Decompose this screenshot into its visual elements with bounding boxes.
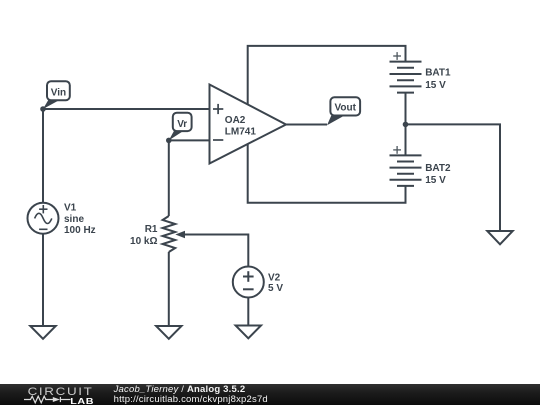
svg-text:V1: V1 (64, 203, 77, 214)
svg-text:5 V: 5 V (268, 283, 283, 294)
net flag Vout (327, 97, 360, 125)
wire Vin node down to V1 + terminal (42, 109, 44, 203)
op-amp - input marker (213, 139, 223, 141)
source V1 (sine) (28, 203, 59, 234)
wire battery junction right and down to ground (406, 124, 501, 231)
ground below V1 (30, 326, 55, 339)
ground below R1 (156, 326, 181, 339)
wire Vr node down to R1 top (168, 140, 170, 216)
label OA2 LM741 (225, 115, 257, 137)
wire op-amp output to Vout flag (286, 124, 327, 126)
wire V2 - terminal to ground (247, 297, 249, 325)
net flag Vr (169, 113, 192, 141)
svg-text:100 Hz: 100 Hz (64, 225, 96, 236)
potentiometer R1 wiper arrow (175, 231, 185, 238)
label BAT2 15 V (425, 163, 451, 186)
wire R1 bottom to ground (168, 252, 170, 326)
BAT2 + terminal marker (393, 146, 401, 154)
svg-text:OA2: OA2 (225, 115, 246, 126)
label BAT1 15 V (425, 68, 451, 91)
svg-text:10 kΩ: 10 kΩ (130, 236, 157, 247)
wire battery junction down to BAT2 + terminal (405, 124, 407, 155)
footer bar (0, 384, 540, 405)
svg-text:BAT1: BAT1 (425, 68, 451, 79)
svg-text:15 V: 15 V (425, 175, 446, 186)
node battery junction (403, 122, 409, 128)
node at Vr junction (166, 138, 172, 144)
svg-text:sine: sine (64, 214, 84, 225)
svg-text:CIRCUIT: CIRCUIT (28, 385, 94, 398)
net flag Vin (43, 81, 70, 109)
label V1 sine 100 Hz (64, 203, 96, 237)
svg-text:Vr: Vr (177, 119, 187, 130)
wire BAT1 - terminal down to battery junction (405, 93, 407, 125)
CircuitLab logo (24, 384, 124, 405)
svg-text:LAB: LAB (70, 397, 94, 405)
op-amp + input marker (213, 104, 223, 114)
svg-text:15 V: 15 V (425, 80, 446, 91)
svg-text:R1: R1 (145, 224, 158, 235)
wire Vr node to op-amp - input (169, 139, 210, 141)
svg-text:Vout: Vout (334, 103, 356, 114)
BAT1 + terminal marker (393, 52, 401, 60)
wire op-amp V+ pin up and right to BAT1 + terminal (top rail) (248, 46, 406, 105)
footer title and url text (114, 384, 268, 405)
ground right of batteries (487, 231, 512, 244)
node at Vin junction (40, 106, 46, 112)
source V2 (dc) (233, 267, 264, 298)
svg-text:Vin: Vin (51, 87, 66, 98)
svg-text:BAT2: BAT2 (425, 163, 451, 174)
label V2 5 V (268, 273, 283, 294)
op-amp OA2 triangle (210, 85, 287, 164)
wire BAT2 - terminal down and left to op-amp V- pin (bottom rail) (248, 144, 406, 203)
wire R1 wiper to V2 + terminal (185, 235, 249, 267)
battery BAT2 (390, 155, 422, 186)
svg-text:LM741: LM741 (225, 126, 257, 137)
potentiometer R1 body (163, 216, 176, 252)
wire Vin node to op-amp + input (43, 108, 210, 110)
wire V1 - terminal to ground (42, 234, 44, 326)
battery BAT1 (390, 62, 422, 93)
label R1 10 kOhm (130, 224, 158, 247)
ground below V2 (236, 326, 261, 339)
